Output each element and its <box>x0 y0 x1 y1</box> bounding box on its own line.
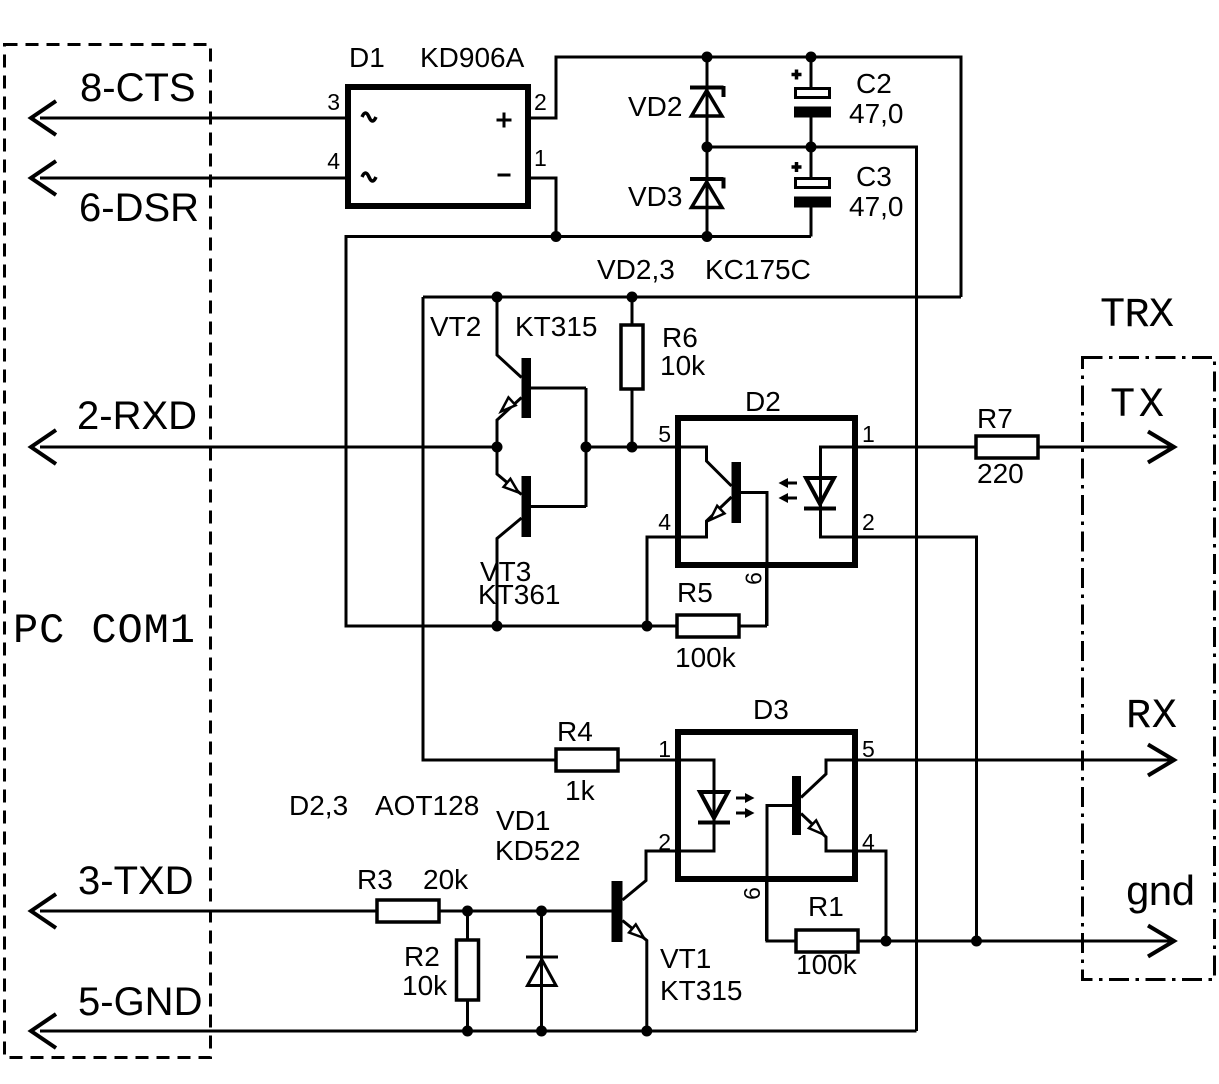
transistor VT3 <box>497 447 531 626</box>
arrow 6-DSR <box>31 161 56 195</box>
arrow RX <box>1148 745 1174 776</box>
arrow 2-RXD <box>31 430 56 464</box>
svg-text:D3: D3 <box>753 694 789 725</box>
resistor R4 <box>556 749 618 771</box>
junction node collector rail R6 <box>627 292 638 303</box>
svg-text:3: 3 <box>327 89 340 115</box>
optocoupler D3 box <box>678 732 855 879</box>
wire 5-GND rail to PC <box>40 1030 917 1033</box>
resistor R2 <box>457 940 479 1000</box>
svg-text:KD906A: KD906A <box>420 42 525 73</box>
svg-text:KT315: KT315 <box>515 311 598 342</box>
D3 phototransistor <box>767 760 852 941</box>
D3 LED <box>681 760 730 851</box>
PC COM1 dashed box <box>5 45 211 1058</box>
resistor R7 <box>976 436 1038 458</box>
svg-text:100k: 100k <box>675 642 737 673</box>
svg-text:D2: D2 <box>745 386 781 417</box>
svg-text:5: 5 <box>658 421 671 447</box>
TRX dash-dot box <box>1083 358 1215 980</box>
junction node R6 bottom <box>627 442 638 453</box>
svg-text:VT2: VT2 <box>430 311 481 342</box>
D1 minus symbol <box>498 174 511 177</box>
svg-text:RX: RX <box>1126 692 1177 740</box>
zener diode VD3 <box>690 178 724 208</box>
svg-text:5: 5 <box>862 736 875 762</box>
arrow 5-GND <box>31 1014 56 1048</box>
capacitor C2 <box>792 70 832 118</box>
svg-text:PC COM1: PC COM1 <box>13 607 195 655</box>
svg-text:D2,3: D2,3 <box>289 790 348 821</box>
D2 LED <box>804 447 852 537</box>
junction node top rail VD2 <box>702 52 713 63</box>
wire D2 pin2 drop to gnd row <box>858 537 977 941</box>
svg-text:3-TXD: 3-TXD <box>78 859 194 903</box>
svg-text:1: 1 <box>862 421 875 447</box>
svg-text:R6: R6 <box>662 322 698 353</box>
junction node mid rail C2/C3 <box>806 142 817 153</box>
svg-text:R5: R5 <box>677 577 713 608</box>
svg-text:KT361: KT361 <box>478 579 561 610</box>
svg-text:4: 4 <box>327 148 340 174</box>
svg-text:1: 1 <box>658 736 671 762</box>
wire D2 pin6 drop <box>765 566 768 626</box>
junction node GND rail VT1 <box>641 1026 652 1037</box>
svg-text:47,0: 47,0 <box>849 191 904 222</box>
svg-text:AOT128: AOT128 <box>375 790 479 821</box>
transistor VT2 <box>497 297 586 507</box>
wire VD1 column <box>540 911 543 1031</box>
wire 2-RXD from VT2/VT3 emitters to PC <box>40 446 497 449</box>
svg-text:6: 6 <box>739 887 765 900</box>
wire R1 row to gnd arrow <box>767 940 1171 943</box>
arrow TX <box>1148 432 1174 463</box>
svg-text:C3: C3 <box>856 161 892 192</box>
arrow 3-TXD <box>31 894 56 928</box>
svg-text:VD3: VD3 <box>628 181 682 212</box>
wire D3 pin4 drop <box>858 851 886 941</box>
svg-text:KC175C: KC175C <box>705 254 811 285</box>
diode VD1 <box>526 957 558 986</box>
transistor VT1 <box>612 851 676 1031</box>
D1 plus symbol <box>497 113 512 128</box>
arrow gnd <box>1148 926 1174 957</box>
svg-text:4: 4 <box>862 829 875 855</box>
junction node TXD VD1 <box>536 906 547 917</box>
svg-text:R3: R3 <box>357 864 393 895</box>
wire D3 pin6 drop to R1 row <box>765 879 768 941</box>
wire D1 pin2 to top rail to right vertical <box>531 57 961 297</box>
svg-text:VD2: VD2 <box>628 91 682 122</box>
svg-text:R4: R4 <box>557 716 593 747</box>
junction node minus rail D1 pin1 <box>551 231 562 242</box>
D1 ac symbol pin4 <box>362 173 376 181</box>
svg-text:R1: R1 <box>808 891 844 922</box>
resistor R5 <box>677 615 739 637</box>
svg-text:1k: 1k <box>565 775 596 806</box>
junction node top rail C2 <box>806 52 817 63</box>
D1 ac symbol pin3 <box>362 113 376 121</box>
svg-text:gnd: gnd <box>1125 870 1196 918</box>
wire D2 pin1 through R7 to TX arrow <box>858 446 1170 449</box>
junction node collector rail VT2 <box>492 292 503 303</box>
svg-text:220: 220 <box>977 458 1024 489</box>
junction node minus rail VD3 <box>702 231 713 242</box>
wire D1 pin1 down to minus rail <box>531 178 556 237</box>
junction node gnd row D3 pin4 <box>881 936 892 947</box>
junction node mid rail VD2/VD3 <box>702 142 713 153</box>
wire D3 pin5 to RX arrow <box>858 759 1170 762</box>
junction node GND rail VD1 <box>536 1026 547 1037</box>
junction node RXD emitters <box>492 442 503 453</box>
wire D2 pin4 drop to R5 rail <box>647 537 675 626</box>
svg-text:1: 1 <box>534 145 547 171</box>
resistor R3 <box>377 900 439 922</box>
svg-text:KT315: KT315 <box>660 975 743 1006</box>
resistor R6 <box>621 325 643 389</box>
junction node R5 rail VT3 <box>492 621 503 632</box>
junction node R5 rail D2 pin4 <box>642 621 653 632</box>
wire mid rail from VD2/VD3 junction right and down to GND rail <box>707 147 917 1031</box>
svg-text:2: 2 <box>534 89 547 115</box>
wire C2/C3 column segments <box>810 57 813 88</box>
junction node TXD R2 <box>462 906 473 917</box>
junction node gnd row D2 pin2 <box>971 936 982 947</box>
D2 phototransistor <box>681 447 767 626</box>
svg-text:5-GND: 5-GND <box>78 980 202 1024</box>
svg-text:8-CTS: 8-CTS <box>80 66 196 110</box>
svg-text:D1: D1 <box>349 42 385 73</box>
svg-text:2: 2 <box>862 509 875 535</box>
svg-text:6-DSR: 6-DSR <box>79 186 199 230</box>
svg-text:VT1: VT1 <box>660 943 711 974</box>
svg-text:R2: R2 <box>404 941 440 972</box>
zener diode VD2 <box>690 86 724 116</box>
svg-text:KD522: KD522 <box>495 835 581 866</box>
wire VT2 collector rail <box>423 296 961 299</box>
svg-text:10k: 10k <box>660 350 706 381</box>
wire minus rail and left drop to R5 rail <box>346 237 811 627</box>
wire VD2/VD3 column <box>706 57 709 237</box>
wire R6 column <box>631 297 634 447</box>
wire R2 column <box>466 911 469 1031</box>
svg-text:VD1: VD1 <box>496 805 550 836</box>
svg-text:6: 6 <box>741 572 767 585</box>
D3 light arrows <box>736 793 755 818</box>
wire base node to D2 pin5 <box>586 446 678 449</box>
junction node bases <box>581 442 592 453</box>
wire left vertical down to R4 row <box>423 297 675 760</box>
svg-text:TRX: TRX <box>1100 291 1174 339</box>
svg-text:10k: 10k <box>402 970 448 1001</box>
resistor R1 <box>796 930 858 952</box>
svg-text:47,0: 47,0 <box>849 98 904 129</box>
bridge rectifier D1 box <box>348 87 528 206</box>
junction node GND rail R2 <box>462 1026 473 1037</box>
capacitor C3 <box>792 162 832 208</box>
svg-text:VD2,3: VD2,3 <box>597 254 675 285</box>
svg-text:2-RXD: 2-RXD <box>77 394 197 438</box>
arrow 8-CTS <box>31 101 56 135</box>
optocoupler D2 box <box>678 418 855 565</box>
svg-text:20k: 20k <box>423 864 469 895</box>
svg-text:R7: R7 <box>977 403 1013 434</box>
wire 3-TXD to PC <box>40 910 612 913</box>
wire 6-DSR from D1 pin4 to PC <box>40 177 345 180</box>
svg-text:100k: 100k <box>796 949 858 980</box>
wire 8-CTS from D1 pin3 to PC <box>40 117 345 120</box>
svg-text:4: 4 <box>658 509 671 535</box>
svg-text:C2: C2 <box>856 68 892 99</box>
D2 light arrows <box>779 478 798 503</box>
